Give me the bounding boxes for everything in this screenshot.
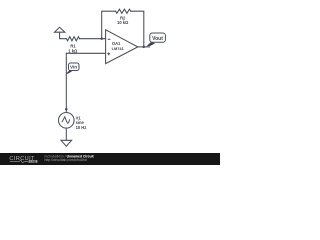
svg-text:1 kΩ: 1 kΩ	[68, 49, 78, 54]
footer bar	[0, 153, 220, 165]
svg-text:http://circuitlab.com/c/hu8hd: http://circuitlab.com/c/hu8hd	[45, 158, 87, 162]
resistor R2	[116, 9, 131, 13]
node Vin (net flag)	[66, 63, 79, 74]
junction node above V1	[65, 108, 67, 110]
junction node at feedback/minus input	[101, 38, 103, 40]
svg-text:10 Hz: 10 Hz	[76, 125, 87, 130]
resistor R1	[67, 37, 80, 41]
svg-text:LM741: LM741	[112, 46, 125, 51]
svg-text:LAB: LAB	[30, 159, 36, 163]
node Vout (net flag)	[146, 33, 165, 46]
wire V1 to ground	[65, 128, 67, 140]
svg-text:10 kΩ: 10 kΩ	[117, 20, 129, 25]
op-amp OA1 non-inverting input pin (+)	[107, 52, 110, 55]
source V1 circle	[59, 113, 75, 129]
wire Vin vertical down to V1	[65, 53, 67, 112]
svg-text:Vin: Vin	[70, 65, 77, 70]
logo LAB box	[29, 160, 38, 163]
op-amp OA1 triangle	[106, 30, 138, 64]
op-amp OA1 inverting input pin (-)	[108, 38, 111, 40]
wire R1 to op-amp minus input	[80, 38, 106, 40]
wire GND1 stem to R1	[60, 32, 67, 39]
wire plus input	[66, 52, 105, 54]
ground GND2 (triangle down)	[61, 140, 72, 146]
wire feedback left vertical	[102, 11, 116, 39]
source V1 sine glyph	[62, 117, 69, 123]
ground GND1 (rotated, triangle up)	[54, 27, 65, 32]
junction node at output	[143, 46, 145, 48]
svg-text:Vout: Vout	[152, 36, 163, 42]
wire feedback right vertical	[131, 11, 144, 47]
wire op-amp output	[138, 46, 150, 48]
logo sine line	[10, 160, 29, 163]
